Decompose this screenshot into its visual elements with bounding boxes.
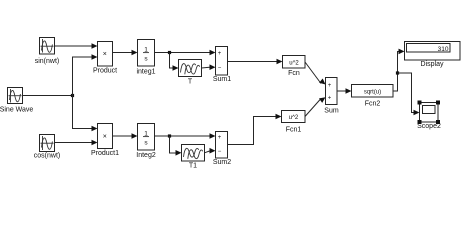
block Display: [405, 42, 461, 69]
block Sum1: [213, 47, 231, 84]
wire Product1 to integ2: [113, 133, 138, 139]
svg-text:+: +: [328, 96, 332, 102]
wire T1 to Sum2 in2: [205, 148, 216, 154]
svg-text:T1: T1: [189, 163, 197, 170]
wire cos(nwt) to Product1 in2: [55, 140, 98, 146]
svg-text:T: T: [188, 79, 193, 86]
svg-text:Sine Wave: Sine Wave: [0, 107, 33, 114]
svg-text:−: −: [218, 149, 222, 155]
wire junction to Scope2: [398, 73, 420, 115]
wire Sum1 to Fcn: [228, 59, 283, 65]
svg-text:310: 310: [438, 46, 449, 53]
svg-text:+: +: [218, 135, 222, 141]
wire Fcn1 diagonal up to Sum in2: [305, 95, 327, 117]
svg-text:Display: Display: [421, 61, 444, 68]
source block Sine Wave: [0, 88, 33, 114]
svg-text:Sum: Sum: [324, 108, 339, 115]
svg-text:Product: Product: [93, 68, 117, 75]
svg-text:Fcn2: Fcn2: [365, 101, 381, 108]
svg-text:u^2: u^2: [289, 60, 299, 66]
junction node at (169.5,52.5): [168, 51, 171, 54]
block Scope2 (selected): [417, 101, 441, 131]
block Sum2: [213, 132, 231, 167]
source block cos(nwt): [34, 135, 60, 160]
svg-text:Integ2: Integ2: [136, 152, 156, 159]
wire integ1 to Sum1 in1: [155, 50, 216, 56]
block T (transport delay): [179, 60, 202, 86]
block Fcn2 (sqrt): [352, 85, 394, 108]
block T1 (transport delay): [182, 145, 205, 170]
svg-text:+: +: [328, 83, 332, 89]
wire junction up to Product in2: [73, 54, 98, 95]
block Product1: [91, 124, 119, 158]
block Fcn (u^2): [283, 56, 306, 78]
block integ1 (1/s): [136, 40, 155, 76]
wire Sum2 up to Fcn1: [228, 114, 282, 145]
svg-text:×: ×: [103, 134, 107, 141]
svg-text:sin(nwt): sin(nwt): [35, 58, 60, 65]
svg-text:sqrt(u): sqrt(u): [364, 89, 381, 95]
wire junction down to T: [170, 53, 179, 71]
junction node at (397.5,73): [396, 71, 399, 74]
svg-text:Sum1: Sum1: [213, 76, 231, 83]
wire T to Sum1 in2: [202, 64, 216, 70]
svg-text:cos(nwt): cos(nwt): [34, 153, 60, 160]
wire Product to integ1: [113, 50, 138, 56]
svg-text:Product1: Product1: [91, 150, 119, 157]
wire Fcn2 up to Display: [393, 49, 405, 91]
svg-text:integ1: integ1: [136, 69, 155, 76]
wire Fcn diagonal down to Sum in1: [305, 62, 327, 87]
svg-text:Fcn1: Fcn1: [286, 127, 302, 134]
wire sin(nwt) to Product in1: [55, 43, 98, 49]
block Fcn1 (u^2): [282, 111, 306, 134]
svg-text:−: −: [218, 66, 222, 72]
svg-text:Scope2: Scope2: [417, 123, 441, 130]
junction node at (72.5,95.5): [71, 94, 74, 97]
svg-text:u^2: u^2: [289, 115, 299, 121]
wire integ2 to Sum2 in1: [155, 133, 216, 139]
wire junction down to Product1 in1: [73, 96, 98, 132]
block integ2 (1/s): [136, 124, 156, 160]
block Product: [93, 42, 117, 75]
svg-text:Fcn: Fcn: [288, 70, 300, 77]
wire Sum to Fcn2: [337, 88, 352, 94]
junction node at (169.5,136): [168, 134, 171, 137]
block Sum: [324, 78, 339, 115]
wire Sine Wave to junction: [23, 95, 73, 97]
source block sin(nwt): [35, 38, 60, 66]
wire junction down to T1: [170, 136, 182, 156]
svg-text:+: +: [218, 51, 222, 57]
svg-text:×: ×: [103, 51, 107, 58]
svg-text:Sum2: Sum2: [213, 159, 231, 166]
